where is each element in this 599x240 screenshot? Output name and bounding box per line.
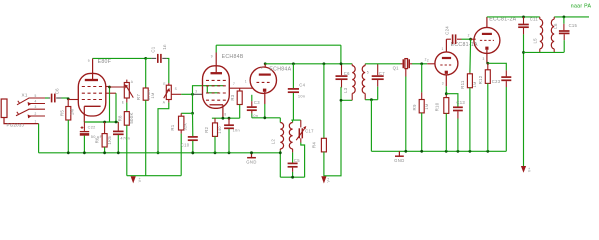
svg-text:C22: C22 xyxy=(88,125,96,130)
svg-text:L5: L5 xyxy=(533,38,538,44)
svg-text:4: 4 xyxy=(35,99,37,103)
svg-text:V+: V+ xyxy=(138,177,142,182)
svg-text:C5: C5 xyxy=(294,158,300,163)
svg-text:1n: 1n xyxy=(162,44,167,50)
svg-text:C7: C7 xyxy=(379,71,385,76)
svg-text:R9: R9 xyxy=(412,104,417,110)
svg-text:5: 5 xyxy=(35,94,37,98)
svg-text:1: 1 xyxy=(245,79,247,83)
svg-text:R8: R8 xyxy=(117,115,122,121)
svg-text:1M: 1M xyxy=(472,81,477,87)
svg-text:E80F: E80F xyxy=(98,59,112,65)
svg-text:3: 3 xyxy=(483,57,485,61)
svg-text:C4: C4 xyxy=(299,83,305,88)
svg-text:C3: C3 xyxy=(254,100,260,105)
svg-text:1M: 1M xyxy=(69,109,74,116)
svg-text:PG203J: PG203J xyxy=(7,123,25,128)
svg-text:E: E xyxy=(163,82,165,86)
svg-text:5: 5 xyxy=(367,70,369,74)
svg-text:10n: 10n xyxy=(251,113,258,118)
svg-text:L3: L3 xyxy=(343,87,348,93)
svg-text:ECH84A: ECH84A xyxy=(269,67,291,73)
svg-text:R10: R10 xyxy=(435,102,440,111)
svg-text:GND: GND xyxy=(394,158,405,163)
svg-text:470n: 470n xyxy=(120,135,130,140)
svg-text:9: 9 xyxy=(211,54,213,58)
svg-text:8: 8 xyxy=(224,113,226,117)
svg-text:2: 2 xyxy=(427,59,429,63)
svg-text:R1: R1 xyxy=(170,124,175,130)
svg-text:R7: R7 xyxy=(136,94,141,100)
svg-text:L2: L2 xyxy=(271,139,276,145)
svg-text:V+: V+ xyxy=(326,178,330,183)
svg-text:10n: 10n xyxy=(298,94,305,99)
svg-text:1K5: 1K5 xyxy=(107,136,112,145)
svg-text:C11: C11 xyxy=(530,16,539,21)
svg-text:500K: 500K xyxy=(129,112,134,123)
svg-text:C17: C17 xyxy=(305,129,314,134)
svg-text:C10: C10 xyxy=(181,142,190,147)
svg-text:R11: R11 xyxy=(460,80,465,89)
svg-text:32K: 32K xyxy=(183,123,188,131)
svg-text:7: 7 xyxy=(233,82,235,86)
svg-text:1M: 1M xyxy=(424,104,429,110)
svg-text:3: 3 xyxy=(442,82,444,86)
svg-text:L6: L6 xyxy=(553,23,558,29)
svg-text:3: 3 xyxy=(195,89,197,93)
svg-text:2: 2 xyxy=(468,34,470,38)
svg-text:1: 1 xyxy=(35,119,37,123)
svg-text:3: 3 xyxy=(35,105,37,109)
svg-text:X1: X1 xyxy=(22,92,28,97)
svg-text:naar PA: naar PA xyxy=(571,4,592,10)
svg-text:Q1: Q1 xyxy=(393,65,400,70)
svg-text:R3: R3 xyxy=(230,94,235,100)
svg-text:140: 140 xyxy=(217,126,222,134)
svg-text:ECH84B: ECH84B xyxy=(222,54,244,60)
svg-text:C15: C15 xyxy=(569,23,578,28)
svg-text:1: 1 xyxy=(442,47,444,51)
svg-text:2: 2 xyxy=(35,112,37,116)
svg-text:9: 9 xyxy=(88,59,90,63)
svg-text:C23: C23 xyxy=(492,79,501,84)
svg-text:C6: C6 xyxy=(344,71,350,76)
svg-text:R4: R4 xyxy=(312,142,317,148)
svg-text:10n: 10n xyxy=(233,128,240,133)
svg-text:R12: R12 xyxy=(478,75,483,84)
svg-text:R6: R6 xyxy=(95,137,100,143)
svg-text:R2: R2 xyxy=(204,126,209,132)
svg-text:C6: C6 xyxy=(54,88,59,94)
svg-text:S: S xyxy=(175,87,177,91)
svg-text:R5: R5 xyxy=(60,110,65,116)
svg-text:C24: C24 xyxy=(445,26,450,35)
svg-text:C1: C1 xyxy=(151,46,156,52)
svg-text:1M: 1M xyxy=(150,92,155,98)
svg-text:9: 9 xyxy=(261,66,263,70)
svg-text:E: E xyxy=(122,100,124,104)
svg-text:V+: V+ xyxy=(527,167,531,172)
svg-text:GND: GND xyxy=(246,160,257,165)
svg-text:C13: C13 xyxy=(456,100,465,105)
